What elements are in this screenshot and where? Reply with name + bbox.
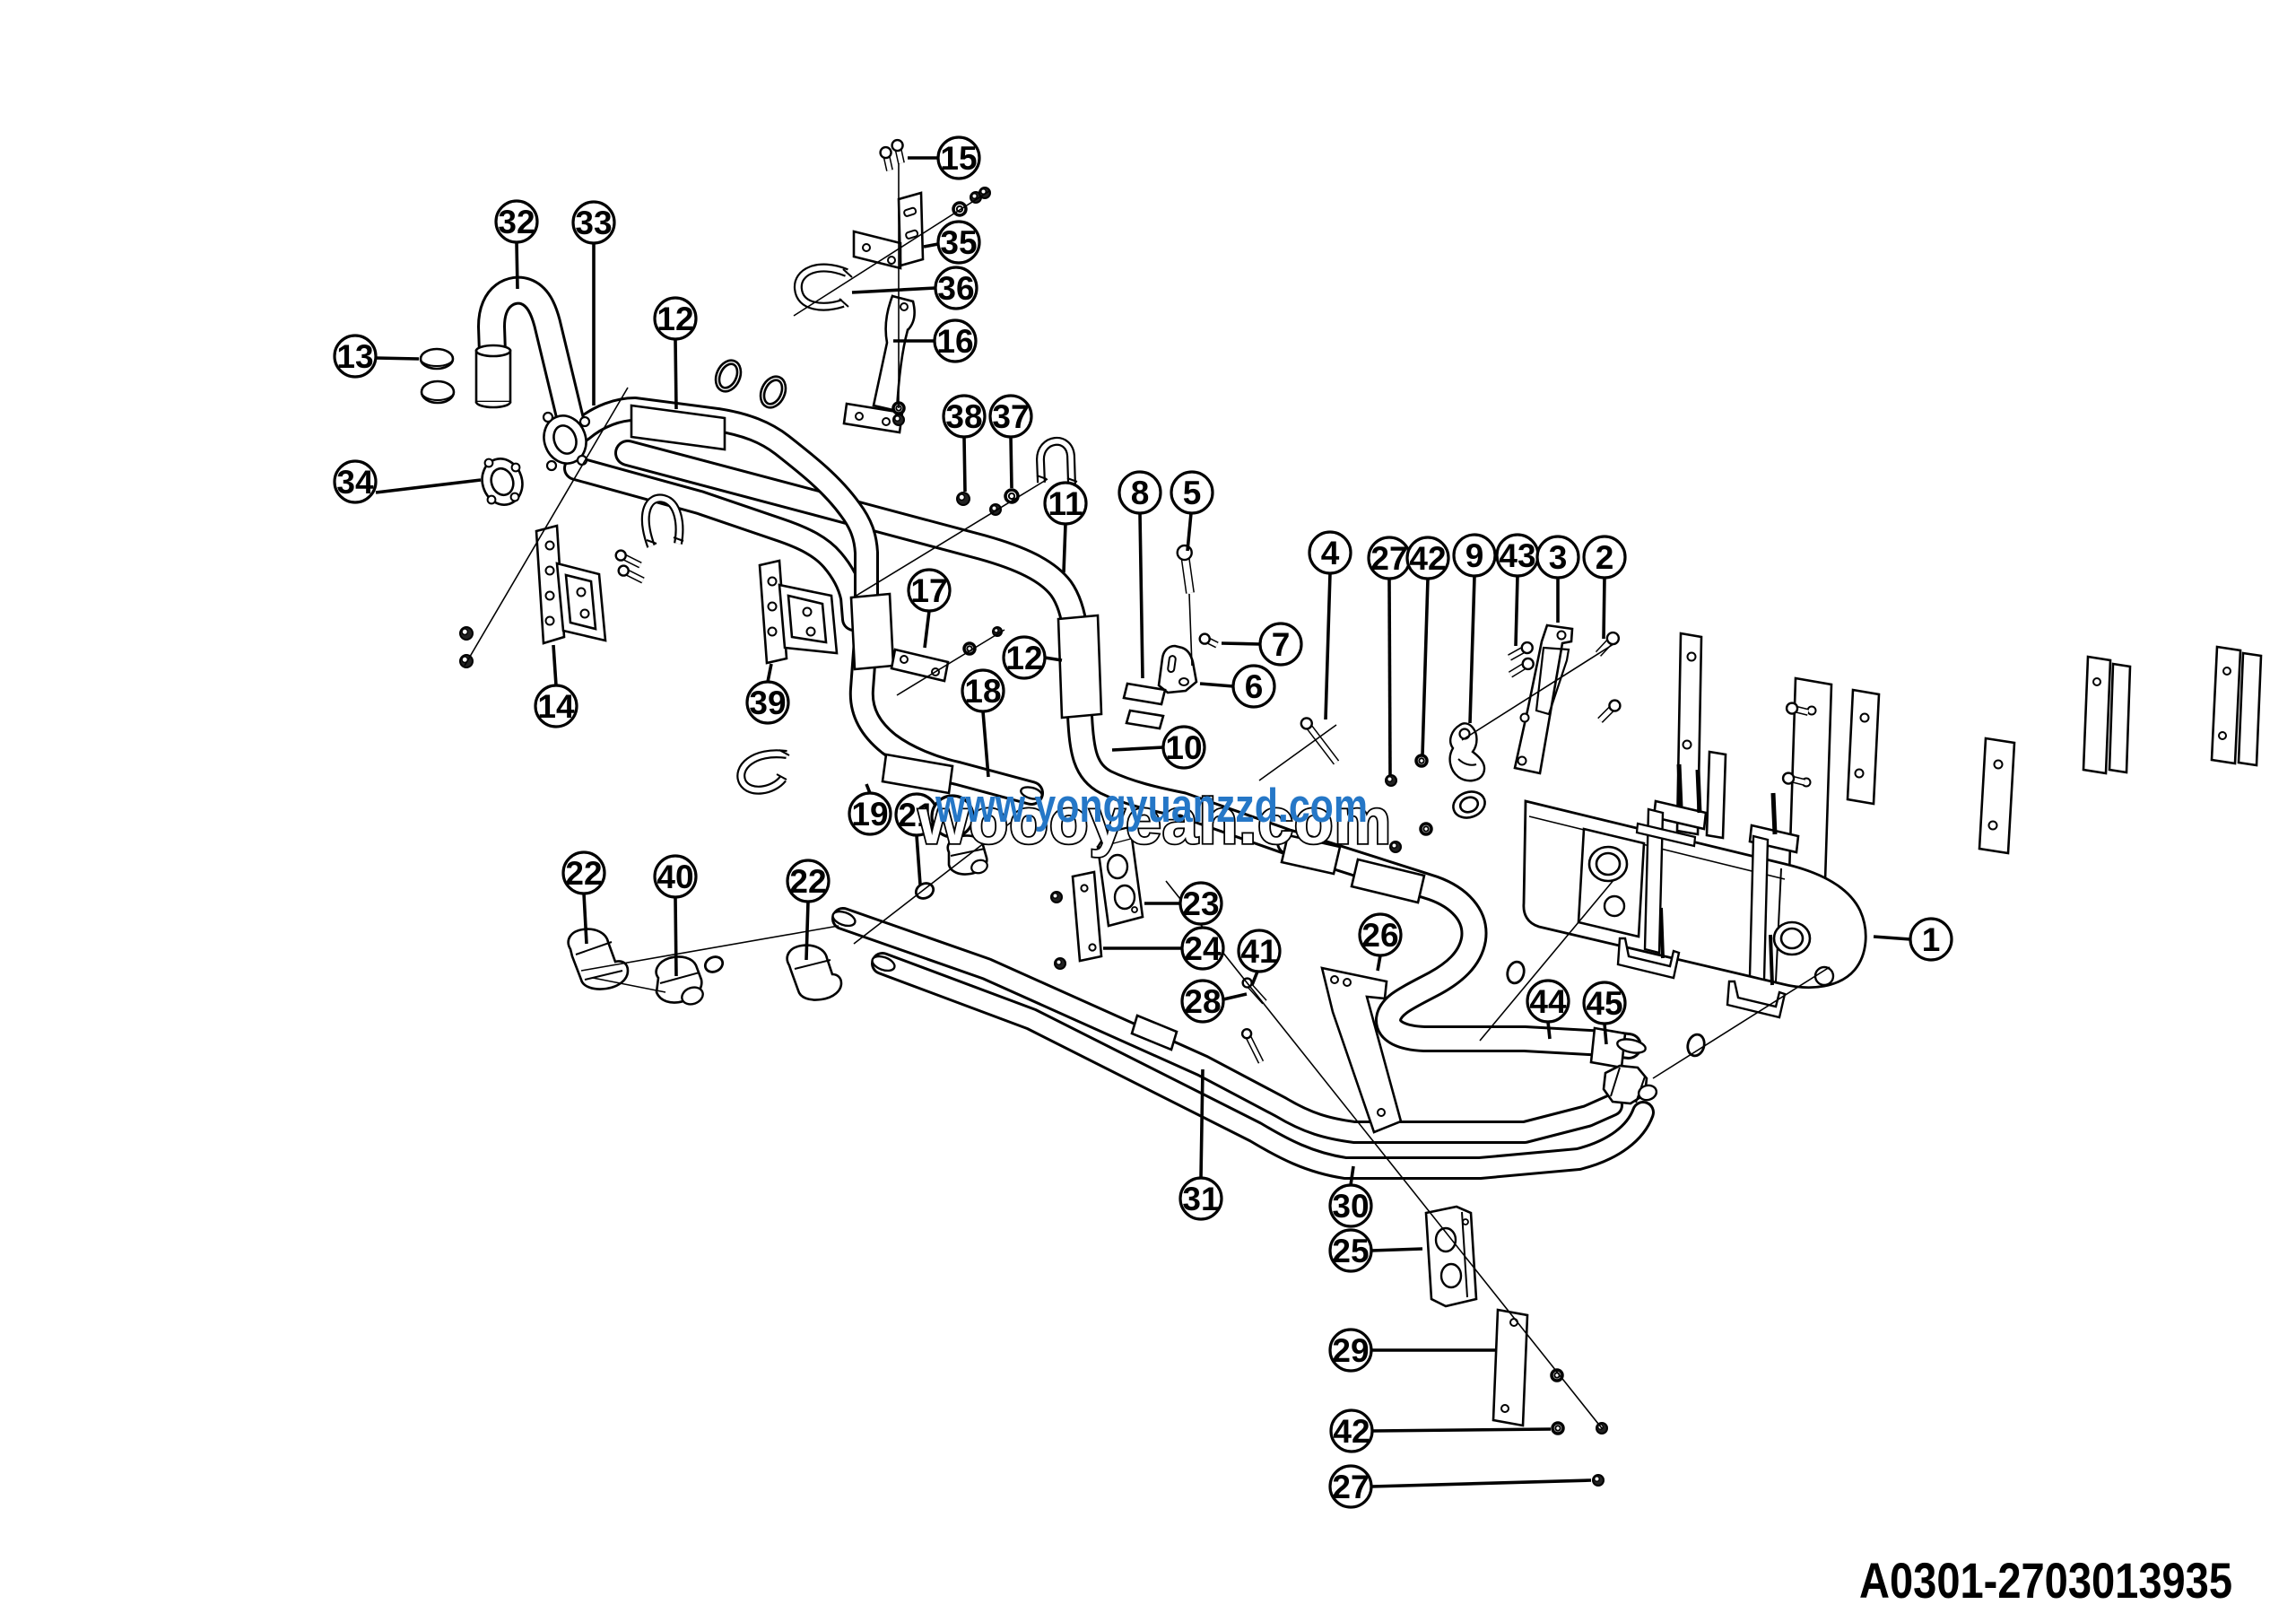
hanger plate inside 1 (left): [1645, 809, 1663, 953]
axis line: [854, 822, 1012, 944]
callout circle 36: [935, 267, 977, 309]
pin 28 b: [1248, 1035, 1261, 1062]
leader line: [1326, 573, 1330, 719]
leader line: [675, 339, 676, 409]
nut under 16: [893, 414, 904, 425]
leader line: [924, 244, 938, 247]
port cylinder left of 1: [1589, 847, 1627, 881]
o-ring near 40: [703, 955, 726, 975]
bolt 2: [1598, 640, 1612, 654]
callout circle 4: [1309, 532, 1351, 573]
nut 27 target: [1386, 775, 1396, 786]
leader line: [1516, 576, 1518, 646]
open end of pipe 44: [1616, 1037, 1647, 1055]
nut 38: [957, 493, 970, 505]
nut near 14 a: [460, 627, 473, 640]
mounting strap A: [1677, 633, 1701, 834]
svg-text:17: 17: [910, 572, 947, 609]
callout circle 19: [849, 793, 891, 834]
leader line: [376, 358, 419, 359]
leader line: [1605, 1024, 1606, 1044]
bolt 4: [1308, 725, 1336, 763]
svg-text:22: 22: [789, 863, 826, 900]
svg-text:27: 27: [1370, 540, 1407, 577]
bolt 7: [1206, 640, 1217, 645]
svg-text:A0301-2703013935: A0301-2703013935: [1859, 1552, 2232, 1609]
nut near 14 b: [460, 655, 473, 667]
leader line: [768, 664, 771, 682]
thread ticks: [843, 269, 852, 277]
callout circle 1: [1910, 919, 1952, 960]
svg-text:5: 5: [1183, 475, 1202, 511]
svg-text:37: 37: [992, 398, 1029, 435]
svg-text:34: 34: [336, 464, 374, 501]
leader line: [553, 645, 556, 685]
bolt 15a: [886, 154, 890, 170]
callout circle 23: [1180, 883, 1222, 924]
nut on axis C: [1596, 1423, 1607, 1434]
callout circle 27: [1369, 537, 1410, 579]
svg-text:43: 43: [1499, 537, 1535, 574]
leader line: [1140, 513, 1143, 678]
callout circle 3: [1537, 536, 1578, 578]
callout circle 32: [496, 201, 537, 242]
leader line: [1371, 1249, 1422, 1251]
leader line: [1470, 576, 1474, 723]
bolt 43 a: [1509, 649, 1526, 658]
svg-text:8: 8: [1131, 475, 1150, 511]
callout circle 7: [1260, 624, 1301, 665]
leader line: [584, 894, 587, 944]
callout circle 17: [909, 570, 950, 611]
svg-text:25: 25: [1332, 1233, 1369, 1269]
nut on axis 37: [990, 504, 1001, 515]
svg-text:33: 33: [575, 205, 612, 241]
callout circle 8: [1119, 472, 1161, 513]
callout circle 22: [563, 852, 604, 894]
callout circle 43: [1497, 535, 1538, 576]
shim 8a: [1124, 684, 1165, 704]
nut near 35: [970, 192, 981, 203]
U-bolt 37: [1040, 441, 1072, 484]
axis line: [1166, 881, 1602, 1428]
leader line: [1103, 946, 1182, 950]
bolt 2 lower: [1600, 707, 1613, 720]
leader line: [1422, 579, 1428, 755]
leader line: [1548, 1022, 1550, 1039]
leader line: [925, 611, 929, 648]
washer near 17: [964, 643, 975, 654]
callout circle 29: [1330, 1330, 1371, 1371]
callout circle 34: [335, 461, 376, 502]
axis line: [465, 388, 628, 666]
svg-text:2: 2: [1596, 539, 1614, 576]
callout circle 28: [1182, 981, 1223, 1022]
nut near 24: [1051, 892, 1062, 903]
leader line: [1045, 658, 1062, 660]
callout circle 41: [1239, 930, 1280, 972]
washer 37: [1005, 490, 1018, 502]
union fitting 45: [1604, 1066, 1647, 1103]
svg-text:28: 28: [1184, 983, 1221, 1020]
leader line: [592, 243, 596, 405]
leader line: [1351, 1166, 1353, 1185]
foot bracket of 1 (right): [1727, 981, 1785, 1017]
bracket 14: [536, 526, 564, 643]
callout circle 13: [335, 336, 376, 377]
right end cap port of 1: [1774, 922, 1810, 955]
callout circle 38: [944, 396, 985, 437]
svg-text:www.yongyuanzzd.com: www.yongyuanzzd.com: [935, 780, 1368, 833]
svg-text:26: 26: [1361, 917, 1398, 954]
svg-text:12: 12: [657, 301, 693, 337]
end plate of 1: [1578, 829, 1644, 937]
foot bracket of 1 (left): [1618, 938, 1679, 978]
bolt 15b: [898, 147, 901, 163]
svg-text:6: 6: [1245, 668, 1264, 705]
leader line: [1372, 1429, 1551, 1431]
axis line: [593, 978, 665, 992]
svg-text:45: 45: [1586, 985, 1622, 1022]
svg-text:1: 1: [1922, 921, 1941, 958]
washer near box: [1421, 824, 1431, 834]
bolt 43 b: [1510, 665, 1526, 675]
leader line: [1144, 902, 1180, 905]
leader line: [1200, 684, 1233, 686]
leader line: [983, 711, 988, 777]
open end of pipe 10 run: [1020, 785, 1043, 801]
mounting plate E: [1979, 738, 2014, 853]
leader line: [675, 897, 676, 976]
svg-text:35: 35: [940, 224, 977, 261]
callout circle 18: [962, 670, 1004, 711]
o-ring near 44: [1505, 960, 1526, 985]
svg-text:31: 31: [1182, 1181, 1219, 1217]
svg-text:36: 36: [937, 270, 974, 307]
mounting strap C (with bolts): [1789, 678, 1831, 881]
leader line: [1378, 955, 1380, 971]
top clamp bar over 1: [1637, 824, 1695, 846]
leader line: [866, 784, 870, 793]
callout circle 35: [938, 222, 979, 263]
callout circle 42: [1331, 1410, 1372, 1452]
callout circle 21: [896, 794, 937, 835]
pipe 32: [491, 291, 570, 420]
callout circle 37: [990, 396, 1031, 437]
rings 12: [711, 356, 745, 395]
axis line: [1259, 725, 1336, 780]
leader line: [806, 902, 808, 960]
callout circle 10: [1163, 727, 1205, 768]
leader line: [1064, 524, 1065, 572]
leader line: [1112, 747, 1163, 750]
washer 42 lower: [1552, 1423, 1563, 1434]
svg-text:11: 11: [1048, 485, 1083, 522]
bolt pair near 14 a: [622, 556, 640, 565]
svg-text:40: 40: [657, 859, 693, 895]
svg-text:22: 22: [565, 855, 602, 892]
svg-text:15: 15: [940, 140, 977, 177]
leader line: [964, 437, 965, 492]
callout circle 11: [1045, 483, 1086, 524]
leader line: [1556, 578, 1560, 623]
o-ring near 45: [1685, 1033, 1707, 1058]
leader line: [517, 242, 517, 289]
callout circle 27: [1330, 1466, 1371, 1507]
leader line: [1604, 578, 1605, 639]
leader line: [908, 156, 938, 160]
rings 13: [421, 349, 453, 369]
callout circle 30: [1330, 1185, 1371, 1226]
cuff 44: [1591, 1028, 1625, 1068]
leader line: [1252, 972, 1257, 985]
leader line: [1371, 1480, 1591, 1487]
sleeve 18 on pipe descent: [851, 594, 893, 669]
pipe 10 main descent: [581, 409, 1031, 793]
svg-text:42: 42: [1409, 540, 1446, 577]
callout circle 12: [1004, 637, 1045, 678]
callout circle 33: [573, 202, 614, 243]
svg-text:44: 44: [1529, 983, 1567, 1020]
hanger plate inside 1 (right): [1750, 836, 1768, 980]
callout circle 44: [1527, 981, 1569, 1022]
pipe 11 lower run: [576, 468, 854, 619]
callout circle 5: [1171, 472, 1213, 513]
svg-text:12: 12: [1005, 640, 1042, 676]
svg-text:39: 39: [749, 685, 786, 721]
mounting strap B: [1707, 752, 1726, 838]
callout circle: [932, 796, 973, 837]
callout circle 31: [1180, 1178, 1222, 1219]
leader line: [1223, 994, 1247, 999]
callout circle 9: [1454, 535, 1495, 576]
svg-text:18: 18: [964, 673, 1001, 710]
flange of pipe 33: [537, 410, 593, 469]
washer on axis C: [1552, 1370, 1562, 1381]
gasket 34: [476, 453, 528, 510]
bracket 3: [1515, 625, 1572, 773]
muffler cylinder of pipe 32: [476, 351, 510, 402]
mounting plate G: [2212, 647, 2240, 763]
leader line: [1389, 579, 1390, 775]
elbow fitting 22 right: [787, 946, 841, 1000]
svg-text:16: 16: [936, 323, 973, 360]
collar on pipe 31: [1132, 1016, 1177, 1050]
leader line: [1874, 937, 1910, 939]
axis line: [1189, 594, 1192, 666]
callout circle 26: [1360, 914, 1401, 955]
hex plug 21: [948, 835, 987, 874]
sleeve on pipe 44 run: [1282, 835, 1340, 874]
axis line: [581, 926, 839, 971]
leader line: [917, 835, 920, 885]
sleeve on pipe 33 (12 position): [631, 405, 725, 449]
leader line: [1201, 1069, 1203, 1178]
callout circle 24: [1182, 928, 1223, 969]
svg-text:7: 7: [1272, 626, 1291, 663]
pipe 33 long run to cuff 12: [628, 453, 1291, 843]
mounting plate D: [1848, 690, 1879, 804]
callout circle 42: [1407, 537, 1448, 579]
bracket 35: [899, 193, 923, 266]
heat exchanger 1 body: [1524, 801, 1865, 988]
svg-text:42: 42: [1333, 1413, 1370, 1450]
washer under 16: [893, 403, 904, 414]
block 25: [1426, 1207, 1476, 1306]
callout circle 45: [1584, 982, 1625, 1024]
bolt 5: [1185, 554, 1190, 593]
clamp 9 upper: [1450, 723, 1484, 780]
bolt on strap C: [1794, 709, 1808, 712]
plate 29: [1493, 1310, 1527, 1426]
bracket 26: [1322, 968, 1401, 1132]
pipe 30: [883, 964, 1643, 1168]
bracket 6: [1159, 646, 1196, 693]
svg-text:19: 19: [851, 796, 888, 833]
open end of pipe 31: [831, 909, 857, 929]
axis line: [897, 630, 1004, 695]
callout circle 12: [655, 298, 696, 339]
axis line: [794, 191, 989, 316]
washer near 35: [953, 203, 966, 215]
bracket 39: [760, 561, 787, 663]
plate 17: [891, 650, 948, 681]
svg-text:23: 23: [1182, 885, 1219, 922]
plate 24: [1073, 872, 1101, 961]
leader line: [852, 288, 935, 292]
leader line: [1371, 1348, 1496, 1352]
axis line: [898, 163, 900, 408]
svg-text:38: 38: [945, 398, 982, 435]
callout circle 16: [935, 320, 976, 362]
U-bolt 36: [798, 268, 847, 307]
svg-text:24: 24: [1184, 930, 1222, 967]
leader line: [1187, 513, 1191, 551]
svg-text:13: 13: [336, 338, 373, 375]
leader line: [893, 339, 935, 343]
svg-text:27: 27: [1332, 1469, 1369, 1505]
U-bolt lower: [741, 754, 787, 789]
callout circle 2: [1584, 536, 1625, 578]
fitting 40: [657, 956, 702, 1002]
open end of pipe 30: [870, 954, 896, 973]
washer 42 target: [1416, 755, 1427, 766]
nut near 24 b: [1055, 958, 1065, 969]
callout circle 22: [787, 860, 829, 902]
callout circle 6: [1233, 666, 1274, 707]
nut near box: [1390, 842, 1401, 852]
bolt pair near 14 b: [625, 571, 643, 580]
pipe 31: [843, 919, 1612, 1132]
nut near 35 b: [979, 187, 990, 198]
clamp 9 lower: [1449, 788, 1488, 823]
U-bolt near 14: [646, 498, 680, 546]
svg-text:9: 9: [1465, 537, 1484, 574]
cuff 12 on pipe 33 descent: [1058, 615, 1101, 718]
pipe 44 run: [1290, 842, 1629, 1046]
heat exchanger top clamp straps: [1654, 801, 1706, 829]
svg-text:41: 41: [1240, 933, 1277, 970]
svg-text:3: 3: [1549, 539, 1568, 576]
bolt on strap C 2: [1790, 779, 1805, 782]
sleeve 19 on pipe 10: [883, 754, 952, 793]
axis line: [850, 479, 1048, 599]
bracket 16: [874, 296, 909, 411]
callout circle 40: [655, 856, 696, 897]
callout circle 15: [938, 137, 979, 179]
svg-text:4: 4: [1321, 535, 1340, 571]
shim 8b: [1126, 711, 1163, 728]
nut 27 lower: [1593, 1475, 1604, 1486]
svg-text:29: 29: [1332, 1332, 1369, 1369]
elbow fitting 22 left: [569, 929, 628, 990]
axis line: [1653, 967, 1830, 1078]
leader line: [1011, 437, 1012, 488]
axis line: [1462, 644, 1613, 740]
svg-text:10: 10: [1165, 729, 1202, 766]
axis line: [1480, 879, 1614, 1041]
nut near 17: [993, 627, 1002, 636]
mounting plate F: [2083, 657, 2110, 773]
pin 28 a: [1248, 984, 1265, 1002]
o-ring near 21: [914, 881, 936, 902]
svg-text:14: 14: [537, 688, 575, 725]
leader line: [1222, 643, 1260, 644]
leader line: [376, 480, 481, 493]
svg-text:30: 30: [1332, 1188, 1369, 1225]
callout circle 14: [535, 685, 577, 727]
callout circle 39: [747, 682, 788, 723]
block 23: [1098, 838, 1143, 926]
sleeve 2 on pipe 44 run: [1352, 859, 1424, 903]
callout circle 25: [1330, 1230, 1371, 1271]
svg-text:32: 32: [498, 204, 535, 240]
